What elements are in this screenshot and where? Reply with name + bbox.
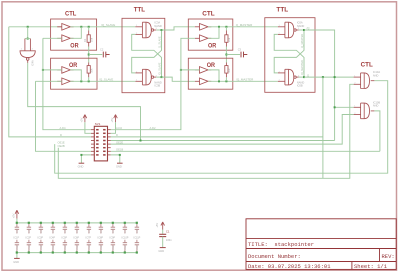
svg-text:VCC: VCC <box>89 228 91 233</box>
wire row3 right <box>111 136 323 138</box>
svg-text:IC11P: IC11P <box>134 237 141 240</box>
wire gate B output down to L3 <box>374 111 380 151</box>
wire to capacitor <box>89 54 103 56</box>
node rail junctions col 9 <box>112 222 114 224</box>
capacitor IC11P bypass pair <box>135 223 139 253</box>
node junction <box>88 80 90 82</box>
gate IC3A NAND <box>135 22 156 38</box>
svg-text:A.D2: A.D2 <box>150 126 156 130</box>
svg-text:OE2E: OE2E <box>116 140 123 144</box>
node junction x42.9 <box>42 69 44 71</box>
buffer T4 <box>62 78 71 85</box>
svg-text:CTL: CTL <box>361 62 374 68</box>
svg-text:GND: GND <box>113 245 115 250</box>
wire TTL2 cross net B <box>274 30 304 73</box>
node junction <box>80 80 82 82</box>
wire NAND IC4 input drop <box>27 27 29 39</box>
svg-text:C2: C2 <box>100 48 104 52</box>
wire Q feedback down to L5 <box>322 77 324 178</box>
capacitor IC8P bypass pair <box>99 223 103 253</box>
node junction left NAND input <box>27 26 29 28</box>
ground symbol left <box>79 162 85 164</box>
svg-text:VCC: VCC <box>17 228 19 233</box>
wire C1 top lead <box>162 230 164 234</box>
svg-text:CTL: CTL <box>65 12 77 18</box>
node junction <box>80 154 82 156</box>
svg-text:Q_SLAVE: Q_SLAVE <box>157 36 161 48</box>
svg-text:IC4A: IC4A <box>31 60 35 66</box>
buffer T2m <box>200 35 209 42</box>
svg-text:GND: GND <box>158 249 164 253</box>
svg-text:REV:: REV: <box>382 253 395 260</box>
svg-text:+5V: +5V <box>12 213 16 218</box>
node junction <box>225 80 227 82</box>
svg-text:C1: C1 <box>166 230 170 234</box>
node junction <box>80 26 82 28</box>
node rail junctions col 8 <box>100 222 102 224</box>
svg-text:IC4P: IC4P <box>50 237 56 240</box>
gate IC3B NAND <box>135 69 156 85</box>
svg-text:SV1: SV1 <box>95 122 101 126</box>
node junction <box>119 154 121 156</box>
wire L3 row7 right <box>111 150 380 152</box>
svg-text:IC10P: IC10P <box>122 237 129 240</box>
wire vertical x42.9 <box>43 38 91 129</box>
svg-text:GND: GND <box>137 245 139 250</box>
svg-text:GND: GND <box>65 245 67 250</box>
svg-text:Q_MASTER: Q_MASTER <box>236 23 253 27</box>
resistor R3 <box>225 35 228 43</box>
wire vertical x35.5 to row7 <box>36 81 92 151</box>
label pin numbers TTL2 <box>279 25 301 81</box>
node rail junctions col 4 <box>52 222 54 224</box>
buffer T4m <box>200 78 209 85</box>
wire TTL1 out top to CTL2 <box>162 27 195 30</box>
capacitor IC4P bypass pair <box>51 223 55 253</box>
gate IC6B NAND <box>278 69 299 85</box>
svg-text:Sheet: 1/1: Sheet: 1/1 <box>354 263 388 270</box>
svg-text:VCC: VCC <box>125 228 127 233</box>
svg-text:A.D2: A.D2 <box>116 126 122 130</box>
svg-text:TTL: TTL <box>276 7 288 13</box>
svg-text:/Q_MASTER: /Q_MASTER <box>300 60 304 75</box>
svg-text:Document Number:: Document Number: <box>248 253 301 260</box>
svg-text:10k: 10k <box>227 37 231 42</box>
buffer T2 <box>62 35 71 42</box>
wire C1 bottom lead <box>162 237 164 248</box>
ground symbol right <box>117 162 123 164</box>
wire +5V rail top <box>17 219 137 223</box>
wire gate A output down to L4 <box>55 81 388 174</box>
ground symbol cap array <box>14 257 20 259</box>
wire T2 out join <box>70 27 81 39</box>
svg-text:IC7P: IC7P <box>86 237 92 240</box>
svg-text:IC8P: IC8P <box>98 237 104 240</box>
svg-text:/Q_SLAVE: /Q_SLAVE <box>99 77 113 81</box>
wire gate input tie <box>25 38 31 40</box>
node junction below box <box>88 54 90 56</box>
node rail junctions col 2 <box>28 222 30 224</box>
svg-text:GND: GND <box>101 245 103 250</box>
svg-text:/Q_MASTER: /Q_MASTER <box>236 77 254 81</box>
svg-text:+5V: +5V <box>110 118 114 123</box>
capacitor IC10P bypass pair <box>123 223 127 253</box>
svg-text:D: D <box>60 133 62 137</box>
wire gate B in2 from L2 <box>111 115 354 145</box>
svg-text:Q_MASTER: Q_MASTER <box>300 34 304 48</box>
wire TTL2 out bottom <box>299 76 304 78</box>
wire T4m output to TTL2 in <box>208 80 278 82</box>
svg-text:+5V: +5V <box>155 223 159 228</box>
svg-text:GND: GND <box>53 245 55 250</box>
node junction <box>88 26 90 28</box>
svg-text:VCC: VCC <box>113 228 115 233</box>
wire TTL2 out top <box>299 29 304 31</box>
box OR2 left <box>51 58 97 89</box>
wire T3m input from x180.9 junction <box>181 69 200 71</box>
svg-text:IC9P: IC9P <box>110 237 116 240</box>
wire T1 output to TTL1 in1 <box>70 26 135 28</box>
wire TTL1 out top <box>156 29 161 31</box>
node junction x180.9 <box>180 69 182 71</box>
svg-text:R1: R1 <box>83 38 87 42</box>
node rail junctions col 6 <box>76 222 78 224</box>
capacitor IC6P bypass pair <box>75 223 79 253</box>
wire TTL1 cross net A <box>132 34 162 77</box>
svg-text:OR: OR <box>208 43 217 49</box>
wire T4 input from x35.5 <box>36 80 62 82</box>
svg-text:10k: 10k <box>89 68 93 73</box>
gate IC6A NAND <box>278 22 299 38</box>
svg-text:C3: C3 <box>238 48 242 52</box>
svg-text:GND: GND <box>41 245 43 250</box>
svg-text:Date: 03.07.2025 13:36:01: Date: 03.07.2025 13:36:01 <box>248 263 331 270</box>
ground symbol C1 <box>160 247 166 249</box>
svg-text:A.D4: A.D4 <box>60 126 66 130</box>
gate IC10A AND <box>354 73 375 89</box>
wire L1 row4 right <box>111 140 335 142</box>
node junction gate input <box>27 38 29 40</box>
svg-text:10k: 10k <box>227 68 231 73</box>
power +5V arrow C1 <box>161 222 165 230</box>
node junction <box>303 29 305 31</box>
node junction <box>334 76 336 78</box>
node junction <box>225 26 227 28</box>
svg-text:TITLE: stackpointer: TITLE: stackpointer <box>248 241 314 248</box>
box OR mid 2 <box>188 58 233 89</box>
svg-text:VCC: VCC <box>41 228 43 233</box>
svg-text:/Q_SLAVE: /Q_SLAVE <box>157 62 161 75</box>
svg-text:IC6P: IC6P <box>74 237 80 240</box>
svg-text:GND: GND <box>116 165 122 169</box>
capacitor IC7P bypass pair <box>87 223 91 253</box>
svg-text:IC5P: IC5P <box>62 237 68 240</box>
buffer T1 <box>62 24 71 31</box>
resistor R1 <box>87 35 90 43</box>
capacitor IC3P bypass pair <box>39 223 43 253</box>
wire T3m out join <box>208 70 219 81</box>
node junction <box>161 76 163 78</box>
svg-text:OE2B: OE2B <box>58 144 65 148</box>
svg-text:GND: GND <box>78 165 84 169</box>
title block <box>246 219 396 270</box>
power +5V arrow left of SV1 <box>83 115 87 123</box>
svg-text:AND: AND <box>373 104 379 108</box>
capacitor IC1P bypass pair <box>15 223 19 253</box>
svg-text:1: 1 <box>21 49 23 51</box>
svg-text:VCC: VCC <box>53 228 55 233</box>
power +5V arrow right of SV1 <box>114 115 118 123</box>
svg-text:GND: GND <box>17 245 19 250</box>
wire T2 input from x42.9 <box>43 37 62 39</box>
svg-text:GND: GND <box>13 260 19 264</box>
capacitor C2 <box>103 52 109 58</box>
node rail junctions col 3 <box>40 222 42 224</box>
node junction <box>322 76 324 78</box>
wire left vertical x8.8 down to connector row3 <box>9 27 91 137</box>
svg-text:IC2P: IC2P <box>26 237 32 240</box>
buffer T3 <box>62 67 71 74</box>
box TTL2 <box>265 18 315 93</box>
svg-text:GND: GND <box>125 245 127 250</box>
capacitor IC2P bypass pair <box>27 223 31 253</box>
wire row8 right to GND <box>111 155 120 163</box>
connector pads and pins <box>96 129 106 156</box>
svg-text:VCC: VCC <box>29 228 31 233</box>
gate IC10B AND <box>354 103 375 119</box>
label pin numbers right gates <box>354 76 356 115</box>
wire T3 out join <box>70 70 81 81</box>
wire TTL2 cross net A <box>274 34 304 77</box>
label pin numbers TTL1 <box>136 25 158 81</box>
resistor R4 <box>225 66 228 74</box>
wire to capacitor mid <box>226 54 240 56</box>
power +5V arrow cap array <box>15 210 19 218</box>
wire gate B in1 <box>335 106 354 108</box>
box CTL mid 1 <box>188 19 233 50</box>
wire TTL2 Q out to gate A in1 <box>304 76 354 78</box>
wire R1 bottom to R2 top <box>88 47 90 63</box>
box CTL1 left <box>51 19 97 50</box>
svg-text:VCC: VCC <box>77 228 79 233</box>
svg-text:100n: 100n <box>166 238 172 242</box>
node junction <box>334 106 336 108</box>
node rail junctions col 10 <box>124 222 126 224</box>
svg-text:GND: GND <box>77 245 79 250</box>
connector SV1 <box>94 126 107 161</box>
wire TTL1 out bottom <box>156 76 161 78</box>
wire net Q feedback top <box>9 26 62 28</box>
node junction <box>303 76 305 78</box>
wire T4 output to TTL1 in <box>70 80 135 82</box>
wire row1 right to CTL mid <box>111 38 195 129</box>
wire +5V to row2 left <box>85 122 91 133</box>
capacitor C3 <box>241 52 247 58</box>
svg-text:TTL: TTL <box>134 7 146 13</box>
buffer T3m <box>200 67 209 74</box>
svg-text:OR: OR <box>69 63 78 69</box>
svg-text:GND: GND <box>89 245 91 250</box>
node junction <box>161 29 163 31</box>
svg-text:+5V: +5V <box>80 118 84 123</box>
capacitor C1 <box>159 234 166 236</box>
wire TTL2 /Q out to right <box>304 30 335 141</box>
svg-text:OE1B: OE1B <box>116 148 123 152</box>
svg-text:VCC: VCC <box>65 228 67 233</box>
buffer T1m <box>200 24 209 31</box>
wire row8 left to GND <box>81 155 91 163</box>
svg-text:IC1P: IC1P <box>14 237 20 240</box>
svg-text:IC6B: IC6B <box>297 84 303 88</box>
node junction L1 x140.5 <box>140 140 142 142</box>
wire TTL1 out bottom to OR2 mid <box>162 77 195 81</box>
svg-text:D: D <box>116 133 118 137</box>
node rail junctions col 7 <box>88 222 90 224</box>
capacitor IC9P bypass pair <box>111 223 115 253</box>
svg-text:OR: OR <box>207 63 216 69</box>
svg-text:IC3B: IC3B <box>154 84 160 88</box>
node junction <box>218 80 220 82</box>
svg-text:VCC: VCC <box>101 228 103 233</box>
wire TTL1 cross net B <box>132 30 162 73</box>
resistor R2 <box>87 66 90 74</box>
svg-text:GND: GND <box>29 245 31 250</box>
wire NAND output down then right <box>28 63 141 141</box>
wire R3 bottom to R4 top <box>225 47 227 63</box>
wire T1m output to TTL2 in1 <box>208 26 278 28</box>
svg-text:AND: AND <box>373 73 379 77</box>
box TTL1 <box>122 18 165 92</box>
node junction below box <box>225 54 227 56</box>
svg-text:OR: OR <box>70 43 79 49</box>
wire T2m out join <box>208 27 219 39</box>
svg-text:OE1E: OE1E <box>58 140 65 144</box>
node rail junctions col 1 <box>16 222 18 224</box>
capacitor IC5P bypass pair <box>63 223 67 253</box>
gate IC4 vertical NAND <box>20 39 35 63</box>
wire +5V to row2 right <box>111 122 116 133</box>
svg-text:VCC: VCC <box>137 228 139 233</box>
node junction <box>218 26 220 28</box>
node rail junctions col 11 <box>136 222 138 224</box>
svg-text:10k: 10k <box>89 37 93 42</box>
svg-text:2: 2 <box>32 49 34 51</box>
wire gate A in2 vertical <box>58 84 353 178</box>
wire T3 input from x42.9 junction <box>43 69 62 71</box>
svg-text:IC3P: IC3P <box>38 237 44 240</box>
svg-text:/Q_SLAVE: /Q_SLAVE <box>101 23 115 27</box>
wire GND rail bottom <box>17 253 137 259</box>
svg-text:CTL: CTL <box>202 12 215 18</box>
node rail junctions col 5 <box>64 222 66 224</box>
